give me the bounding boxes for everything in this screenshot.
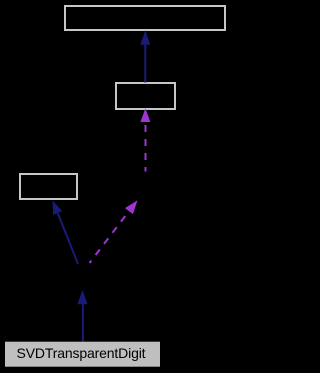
svg-text:SVDTransparentDigit: SVDTransparentDigit <box>17 345 146 361</box>
usage arrow dashed diagonal from node <box>90 200 138 263</box>
inheritance arrow bottom-to-node <box>77 290 87 342</box>
node box left (RelationsObject) <box>20 174 77 199</box>
node box top (TObject) <box>65 6 225 30</box>
node box middle (RelationsInterface) <box>116 83 175 109</box>
inheritance arrow node-to-left-box <box>53 200 79 264</box>
usage arrow dashed vertical to middle box <box>140 108 150 171</box>
main node SVDTransparentDigit <box>5 342 160 367</box>
inheritance arrow middle-to-top <box>140 30 150 82</box>
